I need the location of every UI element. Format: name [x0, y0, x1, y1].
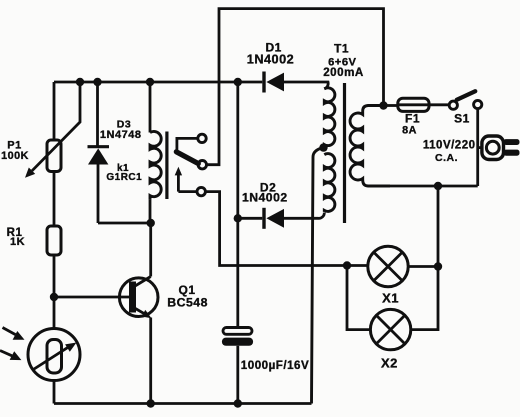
wire: emitter down to ground rail	[149, 318, 152, 404]
wire: arrow base to NO contact	[178, 190, 197, 193]
zener diode D3	[88, 147, 110, 165]
relay armature	[176, 152, 198, 164]
svg-text:110V/220: 110V/220	[423, 139, 476, 151]
LDR photoresistor body	[28, 329, 80, 381]
junction node: X2 branch left	[343, 261, 351, 269]
wire: rail down to potentiometer P1	[53, 82, 56, 140]
wire: NO contact down and right to lamps	[205, 192, 367, 266]
transformer T1 secondary lower winding	[324, 154, 335, 212]
transformer T1 core	[343, 83, 346, 223]
junction node: capacitor on ground rail	[234, 399, 242, 407]
electrolytic capacitor C1 1000uF/16V	[222, 328, 253, 346]
wire: top-left positive rail y=82	[54, 81, 262, 84]
switch S1	[449, 91, 482, 109]
wire: X2 right lead up to X1 node	[411, 267, 438, 330]
wire: AC bottom return to primary	[390, 185, 478, 188]
wire: fuse feed	[384, 104, 398, 107]
relay actuation arrow	[175, 167, 182, 192]
transformer T1 primary winding	[350, 106, 390, 187]
wire: lamp branch from AC return	[437, 186, 440, 267]
relay coil K1	[150, 131, 161, 199]
wire: center tap to ground rail	[312, 148, 324, 404]
svg-text:X1: X1	[382, 291, 399, 306]
lamp X2	[370, 309, 410, 349]
wire: D2 cathode to rectifier vertical	[238, 217, 262, 220]
svg-text:C.A.: C.A.	[435, 152, 458, 164]
wire: base node to Q1 base	[54, 296, 129, 299]
junction node: P1 wiper on rail	[76, 78, 84, 86]
fuse F1 8A	[398, 98, 429, 111]
svg-text:X2: X2	[381, 356, 398, 371]
light arrow 1 into LDR	[3, 328, 25, 340]
wire: rail down to relay coil K1	[149, 82, 152, 133]
junction node: D1 cathode on rail	[234, 78, 242, 86]
junction node: lamp branch on AC return	[434, 182, 442, 190]
junction node: coil bottom / collector	[147, 219, 155, 227]
svg-text:BC548: BC548	[167, 296, 208, 310]
svg-text:S1: S1	[454, 112, 470, 126]
wire: LDR to bottom rail	[53, 381, 56, 404]
wire: capacitor to ground rail	[236, 346, 239, 404]
wire: NC contact to armature pivot	[177, 138, 198, 151]
svg-text:G1RC1: G1RC1	[106, 172, 142, 183]
wire: fuse to switch	[429, 103, 449, 106]
wire: X1 right lead	[408, 265, 438, 268]
svg-text:8A: 8A	[402, 125, 417, 137]
wire: bottom ground rail	[54, 402, 312, 405]
wire: X2 branch left	[347, 266, 370, 330]
lamp X1	[368, 246, 408, 286]
junction node: D2 cathode	[234, 214, 242, 222]
svg-text:100K: 100K	[1, 150, 29, 162]
transistor Q1 BC548	[119, 277, 158, 319]
potentiometer P1 wiper arrow	[25, 82, 80, 178]
light arrow 2 into LDR	[0, 351, 21, 361]
svg-text:1K: 1K	[10, 236, 25, 248]
diode D1 1N4002	[264, 72, 284, 93]
svg-text:1000µF/16V: 1000µF/16V	[241, 359, 309, 372]
wire: common contact up and across top to AC node	[207, 9, 384, 165]
wire: secondary bottom to D2	[284, 213, 324, 219]
junction node: transformer center tap	[319, 143, 327, 151]
wire: collector up to coil node	[149, 223, 152, 277]
junction node: K1 coil on rail	[146, 78, 154, 86]
wire: coil bottom to collector node	[149, 200, 152, 223]
relay NC contact (top)	[198, 134, 206, 142]
resistor R1	[47, 226, 61, 255]
wire: P1 to R1	[53, 172, 56, 227]
junction node: X1/X2 right	[434, 262, 442, 270]
wire: R1 to base node	[53, 255, 56, 297]
diode D2 1N4002	[264, 208, 284, 229]
junction node: R1 / LDR / base	[50, 293, 58, 301]
relay common contact (middle)	[198, 161, 206, 169]
svg-text:1N4002: 1N4002	[242, 191, 288, 205]
svg-text:1N4748: 1N4748	[100, 129, 142, 141]
junction node: D3 on rail	[93, 78, 101, 86]
wire: D1 anode to secondary top	[284, 82, 328, 89]
wire: rectifier output vertical (rail to capacitor)	[236, 82, 239, 328]
svg-text:200mA: 200mA	[323, 66, 364, 79]
svg-text:1N4002: 1N4002	[247, 53, 294, 67]
junction node: AC top / primary / fuse	[379, 101, 387, 109]
junction node: emitter on ground rail	[147, 399, 155, 407]
AC plug 110V/220V	[478, 136, 520, 160]
potentiometer P1 body	[47, 140, 61, 172]
wire: rail down to zener D3	[96, 82, 99, 146]
svg-text:T1: T1	[334, 41, 349, 55]
wire: base node down to LDR	[53, 297, 56, 329]
svg-text:F1: F1	[405, 112, 420, 126]
relay NO contact (bottom)	[197, 187, 205, 195]
transformer T1 secondary upper winding	[324, 88, 335, 148]
wire: D3 anode down and right to collector node	[98, 165, 151, 224]
wire: switch down to AC return	[476, 109, 479, 186]
relay core bar	[165, 132, 168, 200]
